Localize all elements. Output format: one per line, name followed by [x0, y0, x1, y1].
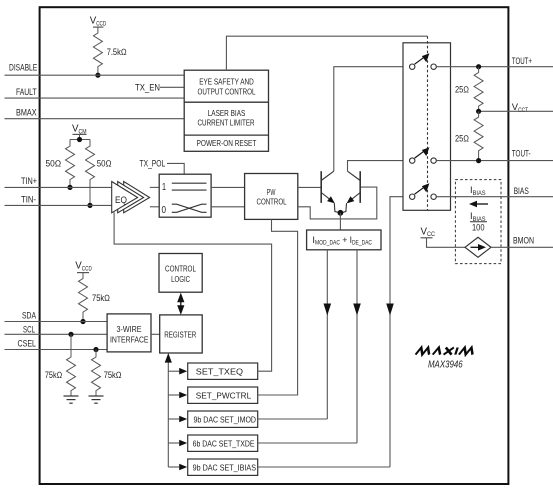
svg-text:OUTPUT CONTROL: OUTPUT CONTROL — [198, 86, 256, 96]
svg-text:SET_PWCTRL: SET_PWCTRL — [196, 390, 252, 400]
svg-text:TX_POL: TX_POL — [140, 158, 166, 169]
node dot VCM — [77, 137, 82, 142]
block CONTROL LOGIC — [159, 254, 202, 293]
node: common emitter dot — [338, 210, 344, 216]
box SET_PWCTRL — [188, 387, 258, 403]
svg-text:LOGIC: LOGIC — [171, 274, 190, 284]
svg-text:75kΩ: 75kΩ — [104, 370, 122, 380]
polarity mux — [159, 174, 211, 217]
ground left — [64, 396, 79, 403]
node dot SCL — [68, 332, 73, 337]
wire Q1 collector to switch S1 — [334, 67, 410, 172]
transistor Q1 — [321, 171, 340, 213]
svg-text:BIAS: BIAS — [514, 185, 529, 196]
riser register to set-boxes — [165, 353, 172, 467]
wires mux to PW control — [211, 186, 245, 188]
node dot TIN+ — [67, 185, 72, 190]
wire SET_PWCTRL to PW control — [258, 219, 298, 395]
svg-text:REGISTER: REGISTER — [164, 329, 196, 339]
resistor R1 7.5k — [93, 27, 126, 75]
equalizer EQ — [112, 182, 150, 213]
resistor 25 ohm lower — [455, 111, 483, 160]
svg-text:9b DAC SET_IMOD: 9b DAC SET_IMOD — [194, 414, 257, 424]
supply VCM — [70, 124, 90, 140]
current source diamond — [465, 237, 491, 257]
svg-text:DISABLE: DISABLE — [9, 62, 37, 73]
label IBIAS/100 fraction — [470, 210, 487, 233]
box SET_TXEQ — [188, 363, 258, 379]
switch S3 (BIAS) — [410, 183, 437, 199]
svg-text:75kΩ: 75kΩ — [45, 370, 62, 380]
pin SCL — [5, 324, 108, 335]
pin TOUT+ — [436, 55, 553, 67]
resistor 75k right pulldown — [92, 350, 122, 396]
branch arrow to SET_PWCTRL — [168, 392, 187, 399]
svg-text:CONTROL: CONTROL — [165, 263, 196, 273]
svg-text:EQ: EQ — [115, 195, 127, 206]
arrow current direction left — [469, 201, 488, 208]
svg-text:TOUT+: TOUT+ — [512, 55, 533, 66]
node dot TOUT+ — [476, 64, 481, 69]
label TX_EN with stub — [135, 82, 184, 93]
current monitor dashed box — [455, 180, 501, 264]
resistor 75k top — [79, 273, 111, 322]
svg-text:6b DAC SET_TXDE: 6b DAC SET_TXDE — [193, 438, 255, 448]
wire Q2 collector to switch S2 — [348, 161, 410, 172]
wire emitter node to DAC block — [339, 213, 341, 230]
node dot CSEL — [93, 347, 98, 352]
wire/riser SET_TXDE to DAC block — [353, 250, 361, 443]
output switch box — [403, 36, 451, 210]
block U1: eye safety / laser bias limiter / POR — [184, 70, 268, 151]
pin TIN- — [5, 193, 112, 205]
svg-text:BMON: BMON — [513, 235, 534, 246]
svg-text:CSEL: CSEL — [18, 338, 37, 349]
svg-text:SDA: SDA — [22, 310, 37, 321]
svg-text:25Ω: 25Ω — [455, 133, 469, 143]
wire PW out2 to Q2 base — [298, 187, 377, 219]
svg-text:50Ω: 50Ω — [97, 159, 112, 169]
box 9b DAC SET_IMOD — [188, 411, 258, 427]
svg-text:75kΩ: 75kΩ — [92, 293, 110, 303]
switch S2 (TOUT-) — [410, 147, 437, 163]
node dot on DISABLE line — [95, 73, 100, 78]
svg-text:TX_EN: TX_EN — [135, 82, 160, 93]
wire SET_IMOD horizontal — [258, 418, 328, 420]
pin BIAS — [436, 185, 553, 197]
svg-text:CURRENT LIMITER: CURRENT LIMITER — [198, 117, 255, 127]
svg-text:SET_TXEQ: SET_TXEQ — [196, 366, 244, 376]
svg-text:3-WIRE: 3-WIRE — [117, 324, 142, 334]
svg-text:FAULT: FAULT — [16, 86, 37, 97]
svg-text:POWER-ON RESET: POWER-ON RESET — [197, 138, 257, 148]
wire SET_TXDE horizontal — [258, 442, 357, 444]
branch arrow to SET_IMOD — [168, 416, 187, 423]
resistor 25 ohm upper — [455, 67, 483, 112]
pin CSEL — [5, 338, 108, 350]
svg-text:EYE SAFETY AND: EYE SAFETY AND — [199, 77, 254, 87]
node dot VCCT — [476, 109, 481, 114]
svg-text:9b DAC SET_IBIAS: 9b DAC SET_IBIAS — [193, 462, 257, 472]
supply VCC — [421, 226, 466, 247]
wire/riser SET_IMOD to DAC block — [324, 250, 332, 419]
svg-text:100: 100 — [472, 223, 485, 233]
svg-text:25Ω: 25Ω — [455, 85, 469, 95]
svg-text:1: 1 — [162, 182, 166, 193]
svg-text:BMAX: BMAX — [16, 107, 37, 118]
block REGISTER — [160, 315, 203, 353]
pin SDA — [5, 310, 108, 322]
pin TOUT- — [436, 147, 553, 160]
svg-text:TIN+: TIN+ — [21, 175, 37, 186]
MAXIM logo — [416, 348, 475, 355]
wire 3-wire to register — [151, 333, 160, 335]
branch arrow to SET_TXDE — [168, 440, 187, 447]
svg-text:CONTROL: CONTROL — [257, 196, 287, 206]
switch S1 (TOUT+) — [410, 53, 437, 69]
wire PW out1 to Q1 base — [298, 186, 321, 188]
node dot TIN- — [87, 203, 92, 208]
pin BMON — [491, 235, 553, 248]
wire/riser SET_IBIAS to bias switch — [386, 197, 409, 467]
pin VCCT — [479, 101, 553, 114]
svg-text:TOUT-: TOUT- — [512, 147, 531, 158]
wire SET_TXEQ to EQ — [114, 212, 272, 371]
resistor 75k left pulldown — [45, 334, 76, 395]
supply VCCD (lower) — [75, 261, 92, 273]
wires EQ to polarity mux — [150, 186, 159, 188]
box 9b DAC SET_IBIAS — [188, 459, 258, 475]
resistor 50 ohm right — [86, 140, 112, 206]
pin DISABLE — [5, 62, 185, 76]
wire SET_IBIAS horizontal — [258, 466, 390, 468]
svg-text:SCL: SCL — [23, 324, 35, 335]
transistor Q2 — [340, 171, 360, 213]
ground right — [89, 396, 104, 403]
branch arrow to SET_TXEQ — [168, 368, 187, 375]
svg-text:MAX3946: MAX3946 — [428, 360, 463, 371]
svg-text:50Ω: 50Ω — [46, 159, 62, 169]
double arrow control logic / register — [177, 293, 184, 315]
svg-text:INTERFACE: INTERFACE — [110, 334, 149, 344]
svg-text:TIN-: TIN- — [21, 193, 36, 204]
label TX_POL with wire — [140, 158, 185, 175]
block IMOD_DAC + IDE_DAC — [307, 230, 381, 250]
box 6b DAC SET_TXDE — [188, 435, 258, 451]
supply VCCD (top) — [90, 16, 107, 28]
pin TIN+ — [5, 175, 112, 187]
svg-text:PW: PW — [267, 187, 276, 197]
resistor 50 ohm left — [46, 140, 75, 188]
pin FAULT — [5, 86, 185, 98]
branch arrow to SET_IBIAS — [168, 464, 187, 471]
pin BMAX — [5, 107, 185, 119]
block 3-WIRE INTERFACE — [107, 314, 151, 352]
node dot SDA — [80, 319, 85, 324]
svg-text:0: 0 — [162, 205, 167, 216]
block PW CONTROL — [245, 174, 298, 220]
svg-text:7.5kΩ: 7.5kΩ — [107, 47, 127, 57]
wire: eye safety to switch control — [226, 36, 427, 70]
node dot TOUT- — [476, 158, 481, 163]
